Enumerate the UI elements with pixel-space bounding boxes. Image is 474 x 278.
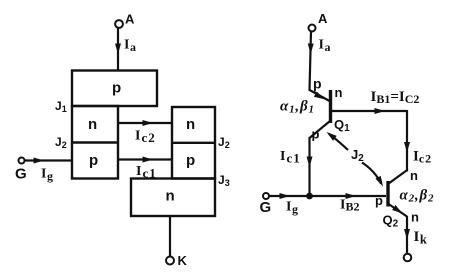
collector wire of Q2 up to corner — [406, 110, 408, 172]
collector slant of Q2 — [388, 171, 407, 185]
svg-text:Q2: Q2 — [383, 213, 399, 230]
svg-text:n: n — [411, 210, 419, 225]
current arrow Ic2 (left) — [143, 120, 154, 126]
current arrow Ia (left) — [115, 44, 121, 55]
svg-text:n: n — [186, 116, 195, 133]
svg-text:J2: J2 — [55, 135, 67, 150]
current arrow Ik — [404, 229, 410, 240]
current arrow Ic1 (right) — [307, 157, 313, 168]
emitter slant of Q2 — [389, 204, 408, 217]
cathode wire to K — [169, 216, 171, 257]
cathode wire of Q2 — [406, 216, 408, 254]
svg-text:J3: J3 — [218, 173, 230, 188]
terminal G (right diagram) — [263, 193, 269, 199]
callout arrow from J2 to Q2 collector junction — [362, 163, 381, 184]
right column box (n and p layers) — [172, 107, 215, 179]
svg-text:n: n — [335, 85, 343, 100]
terminal A (left diagram) — [115, 20, 123, 28]
wire Ic1 (left diagram) — [118, 158, 172, 160]
gate wire G to p-layer — [25, 159, 72, 161]
junction line J2 (right column divider) — [172, 142, 215, 144]
terminal G (left diagram) — [19, 158, 25, 164]
junction dot at gate node — [306, 193, 313, 200]
svg-text:p: p — [112, 80, 121, 97]
svg-text:K: K — [178, 253, 188, 268]
collector wire of Q1 down to gate node — [308, 137, 310, 196]
current arrow Ia (right) — [308, 44, 314, 55]
n-layer box (cathode) — [131, 179, 215, 217]
svg-text:Ia: Ia — [319, 38, 331, 55]
svg-text:n: n — [88, 116, 97, 133]
wire Ic2 (left diagram) — [118, 122, 172, 124]
junction line J2 (left column divider) — [72, 141, 118, 143]
current arrow IB1 — [375, 108, 386, 114]
svg-text:n: n — [166, 188, 175, 205]
svg-text:p: p — [312, 127, 320, 142]
svg-text:A: A — [125, 12, 135, 27]
svg-text:α1,β1: α1,β1 — [280, 99, 315, 116]
base bar of Q2 — [386, 181, 389, 207]
svg-text:p: p — [89, 152, 98, 169]
current arrow Ig (left) — [34, 158, 45, 164]
svg-text:Q1: Q1 — [334, 117, 350, 134]
svg-text:p: p — [375, 193, 383, 208]
svg-text:Ik: Ik — [414, 229, 427, 247]
emitter arrow of Q2 (npn, pointing out) — [392, 205, 404, 216]
svg-text:G: G — [15, 166, 27, 183]
svg-text:Ig: Ig — [41, 167, 53, 184]
wire anode to Q1 emitter — [310, 32, 330, 102]
svg-text:Ia: Ia — [124, 38, 136, 55]
emitter arrow of Q1 (pnp, pointing into base) — [314, 91, 326, 101]
current arrow Ic1 (left) — [143, 157, 154, 163]
svg-text:Ig: Ig — [286, 200, 298, 217]
svg-text:n: n — [410, 168, 418, 183]
svg-text:G: G — [260, 199, 272, 216]
svg-text:IB2: IB2 — [340, 198, 359, 214]
terminal A (right diagram) — [309, 25, 316, 32]
svg-text:A: A — [318, 11, 328, 26]
wire anode A to p-layer — [117, 28, 119, 71]
p-layer box (anode) — [72, 71, 157, 107]
current arrow IB2 — [346, 193, 357, 199]
svg-text:J2: J2 — [351, 147, 364, 164]
svg-text:J2: J2 — [218, 135, 230, 150]
gate wire to Q2 base — [269, 195, 386, 197]
svg-text:Ic1: Ic1 — [280, 149, 301, 166]
left column box (n and p layers) — [72, 106, 118, 179]
svg-text:p: p — [313, 76, 322, 92]
callout arrow from J2 to Q1 collector junction — [329, 134, 348, 150]
terminal K (right diagram) — [404, 254, 412, 262]
base bar of Q1 — [329, 90, 332, 123]
svg-text:IB1=IC2: IB1=IC2 — [371, 89, 420, 106]
svg-text:Ic2: Ic2 — [135, 129, 156, 146]
current arrow Ig (right) — [280, 193, 291, 199]
base wire of Q1 to right corner — [332, 110, 407, 112]
collector slant of Q1 — [310, 121, 331, 138]
terminal K (left diagram) — [166, 257, 174, 265]
current arrow Ic2 (right) — [404, 142, 410, 153]
svg-text:J1: J1 — [55, 99, 67, 114]
svg-text:Ic2: Ic2 — [413, 149, 432, 166]
svg-text:p: p — [186, 152, 195, 169]
svg-text:α2,β2: α2,β2 — [400, 188, 435, 205]
